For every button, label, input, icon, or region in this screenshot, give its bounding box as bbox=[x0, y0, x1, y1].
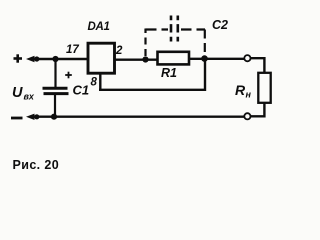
wire top rail: arrow to DA1 bbox=[30, 58, 88, 60]
svg-text:C1: C1 bbox=[73, 83, 90, 98]
wire node to output + terminal bbox=[204, 58, 245, 60]
svg-text:н: н bbox=[246, 90, 252, 100]
wire C1 bottom lead bbox=[54, 94, 56, 118]
svg-text:R1: R1 bbox=[161, 66, 177, 80]
minus input terminal sign bbox=[11, 117, 23, 120]
input arrow + terminal (top) bbox=[26, 56, 39, 62]
wire terminal to Rn top bbox=[250, 58, 264, 73]
node junction left of R1 / C2 branch bbox=[142, 56, 148, 62]
node junction bottom of C1 bbox=[51, 114, 57, 120]
wire feedback horizontal pin8 to node bbox=[99, 89, 206, 91]
wire pin 8 stub down from DA1 bbox=[99, 73, 101, 90]
wire dashed C2 branch left vertical bbox=[144, 29, 146, 57]
output terminal circle (bottom) bbox=[244, 113, 250, 119]
wire dashed C2 branch right vertical bbox=[204, 30, 206, 56]
wire R1 right to node bbox=[189, 58, 206, 60]
svg-text:C2: C2 bbox=[212, 18, 228, 32]
wire DA1 output to R1 bbox=[114, 59, 158, 61]
wire dashed C2 branch top horizontal left bbox=[146, 28, 169, 30]
capacitor C2 (dashed plates) bbox=[171, 16, 178, 43]
resistor R1 bbox=[158, 52, 190, 65]
svg-text:DA1: DA1 bbox=[88, 21, 110, 33]
resistor Rn (load) bbox=[258, 73, 270, 103]
svg-text:8: 8 bbox=[91, 77, 98, 89]
output terminal circle (top) bbox=[244, 55, 250, 61]
node junction top of C1 bbox=[52, 56, 58, 62]
svg-text:17: 17 bbox=[66, 44, 79, 56]
wire C1 top lead bbox=[54, 59, 56, 87]
capacitor C1 bbox=[43, 88, 69, 93]
wire bottom rail bbox=[30, 115, 245, 117]
svg-text:Рис. 20: Рис. 20 bbox=[13, 158, 60, 172]
svg-text:R: R bbox=[235, 82, 246, 98]
wire dashed C2 branch top horizontal right bbox=[181, 28, 205, 30]
wire feedback vertical up to node bbox=[204, 58, 206, 91]
node Uvx input voltage label bbox=[12, 85, 35, 102]
input arrow - terminal (bottom) bbox=[26, 114, 39, 120]
wire Rn bottom to output - terminal bbox=[250, 103, 264, 117]
C1 polarity plus bbox=[65, 72, 72, 79]
plus input terminal sign bbox=[14, 54, 23, 62]
op-amp U1: regulator DA1 box bbox=[88, 43, 115, 73]
node junction right of R1 bbox=[201, 55, 208, 62]
svg-text:2: 2 bbox=[115, 45, 123, 57]
svg-text:U: U bbox=[12, 85, 23, 101]
svg-text:вх: вх bbox=[24, 92, 35, 102]
